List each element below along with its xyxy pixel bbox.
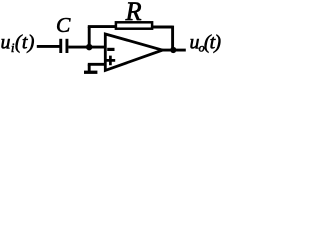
wire feedback top left horizontal (88, 25, 116, 28)
junction dot at inverting input node (86, 44, 93, 51)
capacitor C1 left plate (59, 39, 62, 53)
op-amp minus mark (107, 48, 114, 51)
svg-text:C: C (56, 13, 71, 37)
svg-text:R: R (125, 0, 142, 26)
background (0, 0, 227, 78)
ground bar (84, 71, 97, 74)
op-amp U1 triangle (105, 34, 162, 70)
wire output from apex to uo(t) (161, 49, 186, 52)
wire capacitor to inverting input (68, 46, 106, 49)
junction dot at output node (170, 47, 176, 53)
svg-text:ui(t): ui(t) (1, 32, 35, 56)
wire feedback top right horizontal (152, 26, 173, 29)
wire input from ui(t) to capacitor (37, 45, 60, 48)
svg-text:uo(t): uo(t) (190, 32, 222, 55)
op-amp plus mark (106, 56, 116, 66)
capacitor C1 right plate (65, 39, 68, 53)
wire non-inverting input horizontal (88, 63, 106, 66)
resistor R1 box (116, 22, 152, 28)
wire feedback left vertical (88, 27, 91, 47)
wire feedback right vertical (171, 26, 174, 50)
wire ground vertical drop (88, 64, 91, 71)
